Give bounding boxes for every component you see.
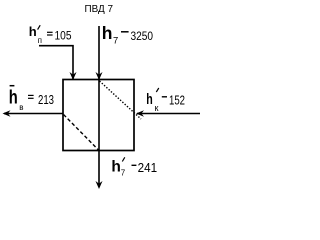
- svg-text:152: 152: [169, 94, 185, 108]
- arrowhead steam inlet: [96, 72, 103, 80]
- wire: feedwater inlet (right): [137, 113, 200, 115]
- label h̄в = 213: [9, 86, 54, 113]
- arrowhead drain outlet: [96, 181, 103, 189]
- svg-text:к: к: [155, 103, 159, 113]
- svg-text:3250: 3250: [131, 29, 154, 43]
- svg-text:7: 7: [113, 36, 118, 47]
- svg-text:105: 105: [55, 31, 72, 43]
- svg-text:в: в: [19, 103, 23, 112]
- label h'7 = 241: [111, 157, 157, 177]
- label h'п = 105: [29, 24, 72, 45]
- wire: drain outlet (bottom): [98, 151, 100, 188]
- svg-text:h: h: [9, 88, 18, 109]
- svg-text:h: h: [111, 159, 120, 176]
- dotted diagonal (desuperheater zone): [100, 81, 142, 119]
- heater box ПВД-7: [63, 80, 134, 151]
- svg-text:h: h: [146, 91, 153, 108]
- svg-text:213: 213: [38, 93, 54, 107]
- wire: steam inlet / internal divider: [98, 26, 100, 151]
- svg-text:241: 241: [138, 160, 158, 175]
- dashed diagonal (condensate cooler zone): [64, 115, 99, 151]
- arrowhead drain inlet: [70, 72, 77, 80]
- svg-text:ПВД 7: ПВД 7: [85, 3, 114, 15]
- wire: feedwater outlet (left): [4, 113, 63, 115]
- label h'к = 152: [146, 88, 185, 113]
- svg-text:п: п: [38, 36, 42, 45]
- arrowhead feedwater outlet: [3, 110, 11, 116]
- svg-text:7: 7: [121, 169, 126, 178]
- svg-text:h: h: [29, 24, 37, 39]
- wire: drain inlet from upper heater: [39, 46, 73, 79]
- arrowhead feedwater inlet: [136, 110, 144, 116]
- svg-text:h: h: [102, 23, 113, 43]
- label h7 = 3250: [102, 23, 153, 47]
